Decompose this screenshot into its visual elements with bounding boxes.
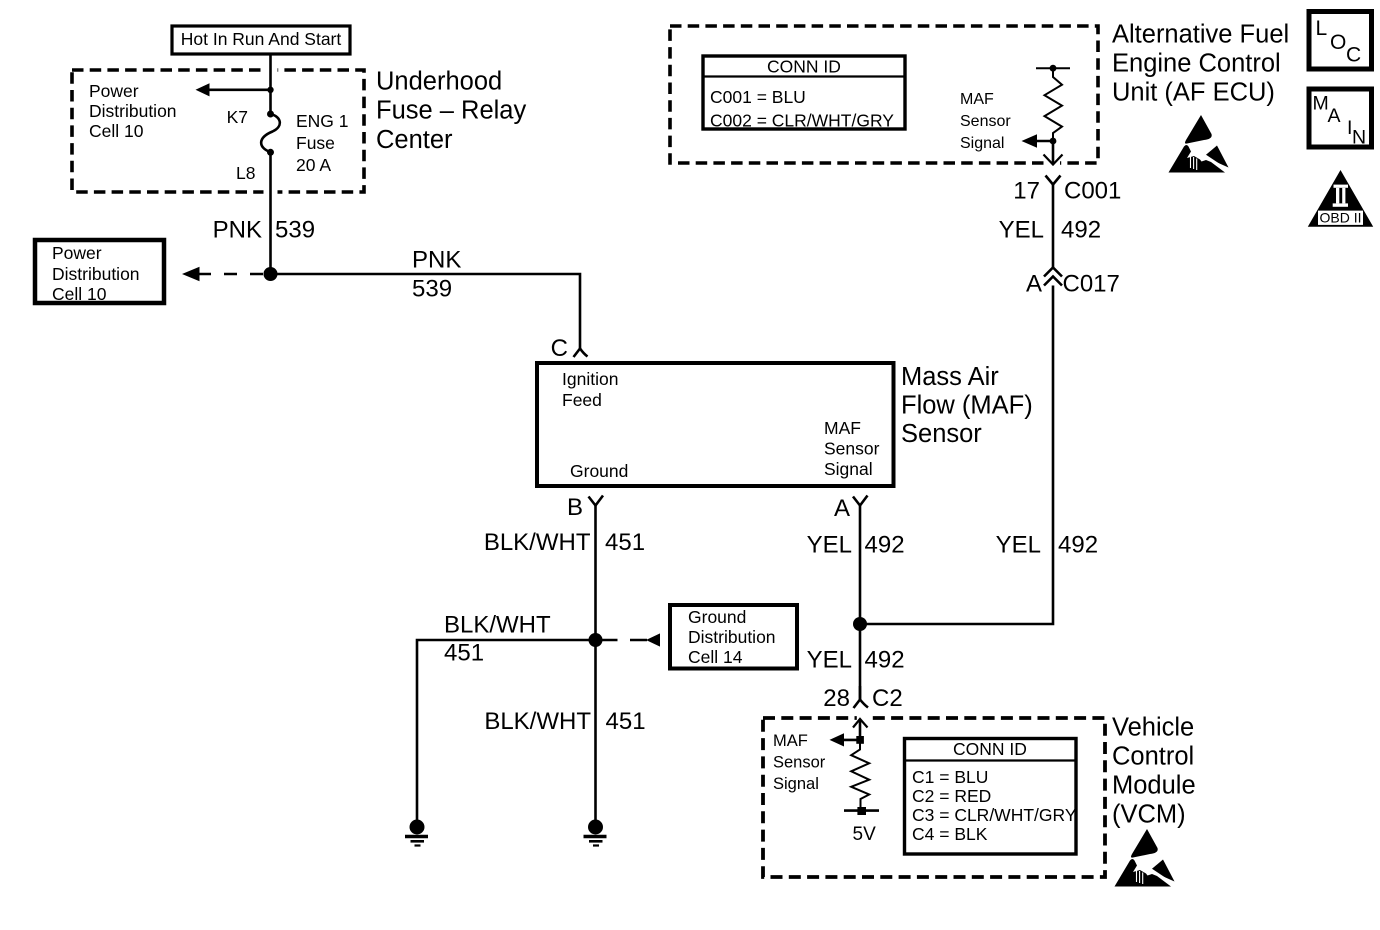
title Alternative Fuel Engine Control Unit (AF ECU): [1112, 21, 1289, 107]
5V supply terminal: [844, 807, 879, 845]
label BLK/WHT 451 (lower): [484, 708, 645, 735]
svg-text:Signal: Signal: [960, 135, 1004, 152]
svg-text:MAF: MAF: [773, 732, 808, 750]
relay K7 contact: [227, 107, 274, 127]
svg-text:Cell 14: Cell 14: [688, 647, 743, 667]
MAF sensor box: [537, 363, 894, 486]
svg-text:Ground: Ground: [688, 607, 746, 627]
svg-text:Unit (AF ECU): Unit (AF ECU): [1112, 79, 1275, 107]
svg-text:Distribution: Distribution: [688, 627, 776, 647]
svg-text:BLK/WHT: BLK/WHT: [444, 612, 551, 639]
svg-text:N: N: [1352, 127, 1366, 149]
signal arrow MAF Sensor Signal (VCM): [830, 733, 864, 746]
pin label Ignition Feed: [562, 369, 618, 410]
label YEL 492 (below splice): [807, 647, 905, 674]
AF ECU dashed enclosure: [670, 26, 1098, 163]
label box "Hot In Run And Start": [172, 26, 350, 54]
svg-text:C2 = RED: C2 = RED: [912, 786, 991, 806]
ECU internal sensing circuit top rail: [1036, 65, 1070, 72]
svg-text:PNK: PNK: [213, 217, 262, 244]
connector C017 pin A (double chevron): [1026, 268, 1120, 298]
label PNK 539: [213, 217, 315, 244]
svg-text:Distribution: Distribution: [52, 264, 140, 284]
VCM entry arrow (open chevron): [853, 714, 870, 740]
label PNK / 539 (two-line): [412, 247, 461, 303]
label YEL 492 (right branch): [996, 532, 1098, 559]
svg-text:C3 = CLR/WHT/GRY: C3 = CLR/WHT/GRY: [912, 805, 1077, 825]
svg-text:539: 539: [412, 276, 452, 303]
svg-text:Signal: Signal: [824, 459, 873, 479]
svg-text:YEL: YEL: [807, 647, 852, 674]
ground symbol (right): [584, 820, 607, 846]
dashed arrow to Power Distribution Cell 10 (left): [182, 267, 263, 281]
svg-text:CONN ID: CONN ID: [953, 739, 1027, 759]
svg-text:BLK/WHT: BLK/WHT: [484, 708, 591, 735]
connector B: [567, 494, 603, 521]
label MAF Sensor Signal (VCM): [773, 732, 826, 793]
label YEL 492 (left of A wire): [807, 532, 905, 559]
arrow branch to Power Distribution Cell 10 (top): [196, 83, 274, 96]
wire BLK/WHT 451 (splice down to ground): [594, 640, 597, 820]
connector A (MAF sensor): [834, 495, 868, 522]
svg-text:M: M: [1313, 93, 1329, 115]
junction node (PNK splice): [264, 267, 278, 281]
underhood fuse-relay center dashed enclosure: [72, 70, 364, 192]
svg-text:O: O: [1330, 31, 1346, 54]
svg-text:451: 451: [444, 640, 484, 667]
svg-text:Fuse: Fuse: [296, 133, 335, 153]
box Ground Distribution Cell 14: [670, 605, 797, 669]
svg-text:539: 539: [275, 217, 315, 244]
svg-text:Center: Center: [376, 126, 453, 154]
svg-text:A: A: [1026, 271, 1042, 298]
connector C (MAF sensor): [551, 335, 588, 362]
wire BLK/WHT 451 (B to splice): [594, 506, 597, 641]
wire YEL 492 (splice to C2): [859, 624, 862, 700]
svg-text:Module: Module: [1112, 772, 1196, 800]
label BLK/WHT 451: [484, 529, 645, 556]
title Vehicle Control Module (VCM): [1112, 714, 1196, 829]
pin label MAF Sensor Signal (in MAF box): [824, 418, 880, 479]
svg-text:Sensor: Sensor: [824, 439, 880, 459]
svg-text:MAF: MAF: [824, 418, 861, 438]
svg-text:YEL: YEL: [807, 532, 852, 559]
svg-text:Mass Air: Mass Air: [901, 363, 999, 391]
svg-text:K7: K7: [227, 107, 248, 127]
wire YEL 492 (A to splice): [859, 506, 862, 625]
VCM CONN ID table: [905, 739, 1077, 855]
svg-text:Cell 10: Cell 10: [89, 121, 144, 141]
ESD symbol (VCM): [1115, 829, 1175, 887]
ECU CONN ID table: [703, 56, 905, 131]
svg-text:C1 = BLU: C1 = BLU: [912, 767, 988, 787]
ECU exit wire with open chevron arrow: [1044, 141, 1063, 167]
svg-text:451: 451: [605, 529, 645, 556]
svg-text:Feed: Feed: [562, 390, 602, 410]
wire YEL 492 (C001 to C017): [1052, 185, 1055, 268]
signal arrow MAF Sensor Signal (ECU): [1022, 134, 1057, 148]
svg-text:492: 492: [1061, 217, 1101, 244]
dashed arrow to Ground Distribution Cell 14: [602, 633, 660, 646]
OBD II icon: [1308, 170, 1373, 227]
wire YEL 492 right branch from C017: [860, 286, 1053, 625]
svg-text:Signal: Signal: [773, 775, 819, 793]
svg-text:C001 = BLU: C001 = BLU: [710, 87, 806, 107]
svg-text:Alternative Fuel: Alternative Fuel: [1112, 21, 1289, 49]
svg-text:MAF: MAF: [960, 91, 994, 108]
svg-text:C017: C017: [1063, 271, 1120, 298]
label MAF Sensor Signal (ECU): [960, 91, 1011, 152]
wire PNK 539 (fuse to junction): [264, 152, 278, 274]
svg-text:CONN ID: CONN ID: [767, 57, 841, 77]
svg-text:Flow (MAF): Flow (MAF): [901, 392, 1033, 420]
svg-text:C2: C2: [872, 685, 903, 712]
ESD symbol (ECU): [1169, 115, 1229, 173]
svg-text:YEL: YEL: [999, 217, 1044, 244]
svg-text:Control: Control: [1112, 743, 1194, 771]
svg-text:Hot In Run And Start: Hot In Run And Start: [181, 29, 342, 49]
svg-text:Ground: Ground: [570, 461, 628, 481]
svg-text:(VCM): (VCM): [1112, 801, 1186, 829]
svg-text:A: A: [1328, 105, 1341, 127]
svg-text:Power: Power: [52, 243, 102, 263]
ground symbol (left): [405, 820, 428, 846]
svg-text:20 A: 20 A: [296, 155, 331, 175]
svg-text:492: 492: [1058, 532, 1098, 559]
wire: feed from Hot In Run And Start down to relay: [264, 54, 278, 114]
svg-text:Vehicle: Vehicle: [1112, 714, 1194, 742]
svg-text:YEL: YEL: [996, 532, 1041, 559]
svg-text:17: 17: [1013, 178, 1040, 205]
wire BLK/WHT 451 left branch to ground: [417, 640, 596, 820]
VCM dashed enclosure: [763, 718, 1105, 877]
svg-text:Engine Control: Engine Control: [1112, 50, 1281, 78]
resistor (VCM 5V pull-up): [851, 743, 869, 811]
svg-text:L8: L8: [236, 163, 255, 183]
LOC page icon: [1309, 12, 1372, 70]
svg-text:C001: C001: [1064, 178, 1121, 205]
svg-text:Sensor: Sensor: [901, 420, 982, 448]
svg-text:A: A: [834, 495, 850, 522]
svg-text:Underhood: Underhood: [376, 68, 502, 96]
svg-text:C: C: [551, 335, 568, 362]
label YEL 492 (ECU wire): [999, 217, 1101, 244]
svg-text:451: 451: [606, 708, 646, 735]
svg-text:492: 492: [865, 532, 905, 559]
svg-text:5V: 5V: [853, 824, 877, 845]
label Power Distribution Cell 10 (inside fuse center): [89, 81, 177, 141]
svg-text:ENG 1: ENG 1: [296, 111, 349, 131]
title Underhood Fuse - Relay Center: [376, 68, 526, 155]
svg-text:Distribution: Distribution: [89, 101, 177, 121]
svg-text:Power: Power: [89, 81, 139, 101]
connector C001 pin 17: [1013, 176, 1121, 205]
label BLK/WHT / 451 (two-line): [444, 612, 551, 667]
svg-text:Fuse – Relay: Fuse – Relay: [376, 97, 526, 125]
box Power Distribution Cell 10: [35, 240, 164, 304]
svg-text:OBD II: OBD II: [1319, 209, 1361, 225]
MAIN page icon: [1309, 89, 1372, 149]
svg-text:Sensor: Sensor: [960, 113, 1011, 130]
wire PNK 539 horizontal run to MAF connector C: [271, 274, 581, 349]
svg-text:L: L: [1316, 17, 1328, 40]
resistor (ECU input): [1045, 68, 1063, 141]
svg-text:Sensor: Sensor: [773, 754, 826, 772]
svg-text:Cell 10: Cell 10: [52, 284, 107, 304]
svg-text:BLK/WHT: BLK/WHT: [484, 529, 591, 556]
svg-text:28: 28: [823, 685, 850, 712]
svg-text:492: 492: [865, 647, 905, 674]
svg-text:C: C: [1346, 44, 1361, 67]
title Mass Air Flow (MAF) Sensor: [901, 363, 1033, 448]
svg-text:C4 = BLK: C4 = BLK: [912, 824, 988, 844]
junction node (YEL splice): [853, 617, 867, 631]
svg-text:B: B: [567, 494, 583, 521]
svg-text:Ignition: Ignition: [562, 369, 618, 389]
connector C2 pin 28: [823, 685, 902, 712]
junction node (BLK/WHT splice): [589, 633, 603, 647]
fuse ENG 1 Fuse 20 A: [261, 111, 348, 175]
svg-text:PNK: PNK: [412, 247, 461, 274]
svg-text:C002 = CLR/WHT/GRY: C002 = CLR/WHT/GRY: [710, 111, 894, 131]
